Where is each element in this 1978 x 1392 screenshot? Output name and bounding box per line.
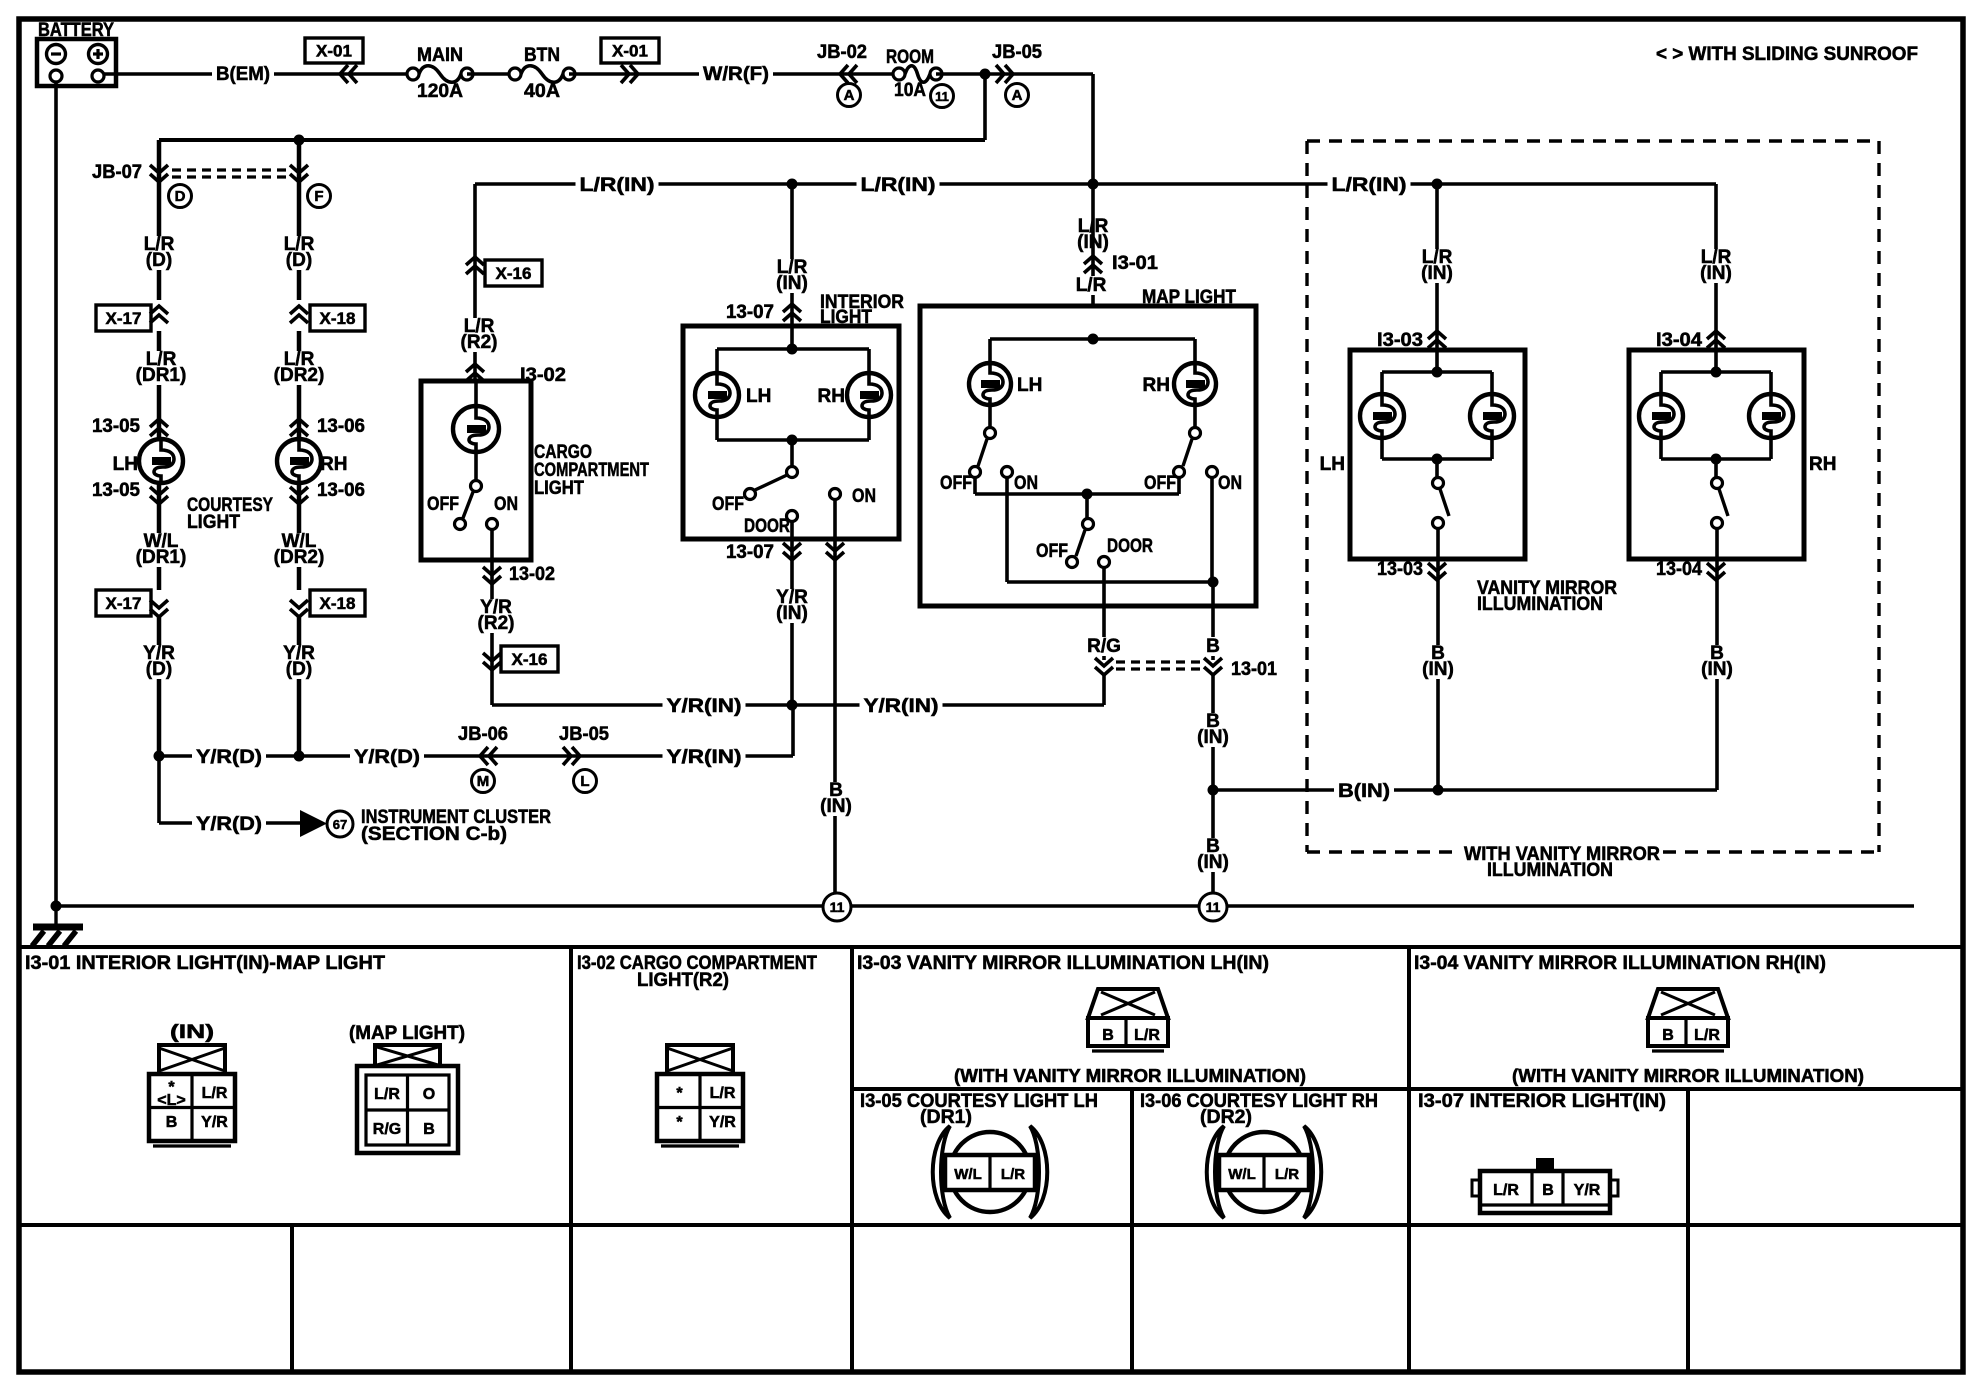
- svg-text:ON: ON: [494, 494, 518, 515]
- svg-text:I3-03 VANITY MIRROR ILLUMINATI: I3-03 VANITY MIRROR ILLUMINATION LH(IN): [857, 953, 1269, 974]
- svg-text:(R2): (R2): [461, 332, 498, 353]
- svg-text:11: 11: [1206, 899, 1221, 915]
- wire L/R(IN) bus: [475, 182, 1716, 186]
- label Y/R(IN) 3: [663, 748, 746, 767]
- table grid: [19, 947, 1963, 1372]
- svg-text:*: *: [676, 1085, 683, 1102]
- label L/R(IN) bus 2: [857, 176, 940, 195]
- svg-text:LH: LH: [746, 386, 771, 407]
- svg-text:Y/R(D): Y/R(D): [354, 747, 420, 768]
- svg-text:B: B: [1662, 1027, 1674, 1044]
- svg-text:Y/R(D): Y/R(D): [196, 814, 262, 835]
- label Y/R(D) 3: [192, 815, 266, 834]
- svg-text:11: 11: [935, 89, 949, 104]
- svg-text:JB-06: JB-06: [458, 724, 508, 745]
- node junction at x985 top: [980, 69, 991, 80]
- connector I3-01 lower arrows B: [1204, 667, 1222, 675]
- wire X-17 to lamp LH: [157, 331, 162, 440]
- svg-text:RH: RH: [818, 386, 845, 407]
- svg-text:W/R(F): W/R(F): [703, 64, 769, 85]
- connector X-17 lower: [96, 590, 151, 616]
- svg-text:10A: 10A: [894, 80, 926, 101]
- svg-text:*: *: [676, 1114, 683, 1131]
- node bus junction vanity LH: [1432, 179, 1443, 190]
- svg-text:B: B: [166, 1114, 178, 1131]
- svg-text:LIGHT: LIGHT: [534, 478, 584, 499]
- label Y/R(IN) 2: [860, 697, 943, 716]
- node circled 11 right: [1198, 892, 1228, 920]
- svg-text:X-17: X-17: [106, 594, 142, 613]
- switch interior: [790, 440, 794, 467]
- svg-text:L/R: L/R: [1134, 1027, 1160, 1044]
- wire Y/R riser to junction: [791, 705, 795, 756]
- lamp cargo: [474, 381, 478, 407]
- svg-text:LH: LH: [1320, 454, 1345, 475]
- wire X-18 to lamp RH: [297, 331, 302, 440]
- node map off bus: [1082, 489, 1093, 500]
- vanity mirror illumination LH box: [1350, 350, 1525, 559]
- svg-text:JB-02: JB-02: [817, 42, 867, 63]
- wire battery positive B(EM) feed: [104, 72, 413, 76]
- wire battery negative down: [54, 82, 58, 906]
- switch map LH: [988, 405, 992, 428]
- wire courtesy RH drop upper: [297, 140, 302, 300]
- svg-text:RH: RH: [320, 454, 347, 475]
- svg-text:DOOR: DOOR: [1107, 536, 1153, 557]
- label B map: [1204, 637, 1223, 656]
- interior lamp parallel circuit: [790, 326, 794, 349]
- cargo compartment light box: [421, 381, 531, 560]
- switch map RH: [1193, 405, 1197, 428]
- connector I3-07 lower arrows: [783, 552, 801, 560]
- svg-text:(IN): (IN): [776, 273, 808, 294]
- svg-text:A: A: [844, 87, 855, 104]
- label Y/R(D) 2: [350, 748, 424, 767]
- svg-text:<L>: <L>: [157, 1092, 185, 1109]
- svg-text:(DR2): (DR2): [274, 365, 325, 386]
- wire B to I3-01: [1211, 606, 1215, 660]
- label L/R (D) left: [141, 236, 178, 270]
- svg-text:(IN): (IN): [776, 603, 808, 624]
- svg-text:M: M: [477, 773, 490, 790]
- svg-text:(IN): (IN): [1197, 727, 1229, 748]
- svg-text:D: D: [175, 188, 186, 205]
- wire BTN fuse to X-01 right: [569, 72, 899, 76]
- wire Y/R(D) horizontal: [159, 754, 793, 758]
- svg-text:X-01: X-01: [612, 42, 648, 61]
- connector I3-02 upper arrows: [466, 364, 484, 372]
- connector arrows X-01 right: [630, 65, 638, 83]
- label B (IN) interior: [812, 782, 860, 816]
- svg-text:(IN): (IN): [1700, 263, 1732, 284]
- connector X-16 upper: [466, 257, 484, 265]
- svg-text:Y/R(IN): Y/R(IN): [667, 696, 742, 717]
- svg-text:L: L: [580, 773, 589, 790]
- interior light box: [683, 326, 899, 539]
- wire vanity RH to B(IN): [1715, 559, 1719, 790]
- wire cargo ON output: [490, 530, 494, 560]
- svg-text:13-07: 13-07: [726, 302, 774, 323]
- label L/R(IN) bus 3: [1328, 176, 1411, 195]
- label Y/R (D) right: [281, 645, 318, 679]
- svg-text:Y/R(IN): Y/R(IN): [864, 696, 939, 717]
- svg-text:B(IN): B(IN): [1338, 781, 1390, 802]
- svg-text:L/R: L/R: [1076, 275, 1107, 296]
- svg-text:(WITH VANITY MIRROR ILLUMINATI: (WITH VANITY MIRROR ILLUMINATION): [1512, 1066, 1864, 1086]
- svg-text:(R2): (R2): [478, 613, 515, 634]
- connector I3-07 upper arrows: [783, 304, 801, 312]
- svg-text:13-04: 13-04: [1656, 559, 1702, 580]
- wire B(IN) map down: [1211, 675, 1215, 892]
- dashed option box WITH VANITY MIRROR ILLUMINATION: [1307, 141, 1879, 852]
- svg-text:L/R: L/R: [1493, 1182, 1519, 1199]
- label L/R (D) right: [281, 236, 318, 270]
- node Y/R(D) junction left: [154, 751, 165, 762]
- label L/R (R2): [455, 318, 503, 352]
- svg-text:LH: LH: [113, 454, 138, 475]
- wire lamp LH to X-17 lower: [157, 483, 162, 590]
- node Y/R(D) junction right: [294, 751, 305, 762]
- node junction F branch: [294, 135, 305, 146]
- connector arrows X-01 left: [340, 65, 348, 83]
- wire Y/R(IN) horizontal: [492, 703, 1104, 707]
- svg-text:13-05: 13-05: [92, 480, 140, 501]
- label B (IN) vanity RH: [1693, 645, 1741, 679]
- label B(EM): [212, 65, 274, 84]
- svg-text:OFF: OFF: [1144, 473, 1176, 494]
- label Y/R (IN) door: [768, 589, 816, 623]
- svg-text:ON: ON: [1014, 473, 1038, 494]
- svg-text:Y/R: Y/R: [709, 1114, 736, 1131]
- svg-text:OFF: OFF: [427, 494, 459, 515]
- wire feed corner down to L/R(IN) bus: [1091, 74, 1095, 184]
- connector drawing I3-04: [1648, 989, 1728, 1051]
- svg-text:A: A: [1012, 87, 1023, 104]
- wire JB-07 feed drop from x985: [983, 74, 987, 140]
- svg-text:R/G: R/G: [373, 1121, 401, 1138]
- lamp interior LH: [695, 373, 739, 417]
- wire courtesy LH drop upper: [157, 140, 162, 300]
- node Y/R junction: [787, 700, 798, 711]
- svg-text:RH: RH: [1143, 375, 1170, 396]
- svg-text:O: O: [423, 1086, 435, 1103]
- connector X-01 left: [305, 38, 363, 63]
- lamp map RH: [1174, 363, 1216, 405]
- node bus junction map light: [1088, 179, 1099, 190]
- svg-text:13-05: 13-05: [92, 416, 140, 437]
- svg-text:MAIN: MAIN: [417, 45, 463, 66]
- svg-text:L/R: L/R: [202, 1085, 228, 1102]
- svg-text:ILLUMINATION: ILLUMINATION: [1487, 860, 1613, 881]
- svg-text:L/R: L/R: [710, 1085, 736, 1102]
- svg-text:ON: ON: [852, 486, 876, 507]
- lamp map LH: [969, 363, 1011, 405]
- wire interior ON output: [833, 499, 837, 539]
- svg-text:RH: RH: [1809, 454, 1836, 475]
- connector I3-05 upper arrows: [150, 419, 168, 427]
- svg-text:(D): (D): [146, 250, 172, 271]
- svg-text:LIGHT(R2): LIGHT(R2): [637, 970, 729, 991]
- label Y/R (D) left: [141, 645, 178, 679]
- svg-text:BTN: BTN: [524, 45, 560, 66]
- node B(IN) junction: [1208, 785, 1219, 796]
- label B (IN) upper: [1189, 713, 1237, 747]
- lamp courtesy LH: [139, 439, 183, 483]
- wire vanity LH drop: [1435, 184, 1439, 350]
- connector I3-06 upper arrows: [290, 419, 308, 427]
- svg-text:13-07: 13-07: [726, 542, 774, 563]
- svg-text:W/L: W/L: [1228, 1166, 1256, 1183]
- svg-text:X-16: X-16: [496, 264, 532, 283]
- label Y/R (R2): [472, 599, 520, 633]
- svg-text:X-16: X-16: [512, 650, 548, 669]
- map lamp circuit top: [990, 337, 1195, 341]
- svg-text:Y/R(D): Y/R(D): [196, 747, 262, 768]
- node circled F: [308, 185, 331, 208]
- svg-text:B: B: [1206, 636, 1220, 657]
- lamp interior RH: [847, 373, 891, 417]
- connector X-16 lower: [483, 662, 501, 670]
- label R/G: [1084, 637, 1124, 656]
- wire map OFF bus: [973, 478, 977, 494]
- wire DOOR to Y/R junction: [790, 539, 794, 705]
- svg-text:(IN): (IN): [1701, 659, 1733, 680]
- connector X-18 upper: [310, 305, 365, 331]
- wire ground bus: [56, 904, 1914, 908]
- svg-text:(WITH VANITY MIRROR ILLUMINATI: (WITH VANITY MIRROR ILLUMINATION): [954, 1066, 1306, 1086]
- svg-text:(IN): (IN): [170, 1022, 214, 1043]
- svg-text:X-01: X-01: [316, 42, 352, 61]
- svg-text:R/G: R/G: [1087, 636, 1121, 657]
- svg-text:JB-07: JB-07: [92, 162, 142, 183]
- wire MAIN fuse to BTN fuse: [467, 72, 515, 76]
- svg-text:OFF: OFF: [712, 494, 744, 515]
- svg-text:67: 67: [333, 817, 347, 832]
- ground symbol: [32, 906, 83, 946]
- svg-text:I3-01 INTERIOR LIGHT(IN)-MAP L: I3-01 INTERIOR LIGHT(IN)-MAP LIGHT: [25, 953, 385, 974]
- ground ref A at JB-02: [838, 84, 861, 107]
- wire interior ON to ground node 11: [833, 539, 837, 892]
- svg-text:X-18: X-18: [320, 594, 356, 613]
- connector X-17 upper: [96, 305, 151, 331]
- svg-text:Y/R: Y/R: [201, 1114, 228, 1131]
- svg-text:I3-06 COURTESY LIGHT RH: I3-06 COURTESY LIGHT RH: [1140, 1091, 1378, 1112]
- label L/R map feed: [1071, 276, 1111, 295]
- svg-text:JB-05: JB-05: [992, 42, 1042, 63]
- svg-text:11: 11: [830, 899, 845, 915]
- svg-text:13-01: 13-01: [1231, 659, 1277, 680]
- svg-text:(IN): (IN): [1197, 852, 1229, 873]
- svg-text:L/R: L/R: [1275, 1166, 1299, 1183]
- svg-text:I3-04 VANITY MIRROR ILLUMINATI: I3-04 VANITY MIRROR ILLUMINATION RH(IN): [1414, 953, 1826, 974]
- node interior top: [787, 344, 798, 355]
- wire map B output: [1211, 582, 1215, 606]
- map light box: [920, 306, 1256, 606]
- svg-text:LH: LH: [1017, 375, 1042, 396]
- label L/R (IN) map feed upper: [1069, 218, 1117, 252]
- node interior bottom: [787, 435, 798, 446]
- wire bus to map light: [1091, 184, 1095, 339]
- connector drawing I3-02: [667, 1045, 733, 1074]
- connector drawing I3-03: [1088, 989, 1168, 1051]
- svg-text:(MAP LIGHT): (MAP LIGHT): [349, 1023, 465, 1044]
- svg-text:(D): (D): [286, 659, 312, 680]
- svg-text:L/R: L/R: [1001, 1166, 1025, 1183]
- battery B1: [37, 20, 116, 86]
- label W/R(F): [699, 65, 773, 84]
- node circled 11 at ROOM fuse: [931, 85, 954, 108]
- label B (IN) lower: [1189, 838, 1237, 872]
- connector drawing I3-06: [1207, 1126, 1322, 1218]
- connector I3-01 lower arrows R/G: [1095, 667, 1113, 675]
- svg-text:JB-05: JB-05: [559, 724, 609, 745]
- connector I3-04 upper arrows: [1707, 331, 1725, 339]
- svg-text:L/R(IN): L/R(IN): [580, 175, 655, 196]
- svg-text:ILLUMINATION: ILLUMINATION: [1477, 594, 1603, 615]
- connector I3-03 upper arrows: [1428, 331, 1446, 339]
- svg-text:L/R(IN): L/R(IN): [861, 175, 936, 196]
- svg-text:(D): (D): [286, 250, 312, 271]
- svg-text:13-02: 13-02: [509, 564, 555, 585]
- wire bus corner down to X-16 upper: [473, 184, 477, 381]
- svg-text:BATTERY: BATTERY: [38, 20, 114, 41]
- svg-text:(D): (D): [146, 659, 172, 680]
- switch cargo: [474, 452, 478, 480]
- label L/R (DR2): [270, 351, 329, 385]
- label L/R (IN) vanity RH: [1692, 249, 1740, 283]
- node B(IN) vanity junction: [1433, 785, 1444, 796]
- svg-text:I3-01: I3-01: [1112, 253, 1158, 274]
- label B (IN) vanity LH: [1414, 645, 1462, 679]
- wire vanity LH to B(IN): [1436, 559, 1440, 790]
- svg-text:13-06: 13-06: [317, 480, 365, 501]
- wire lamp RH to X-18 lower: [297, 483, 302, 590]
- switch map master OFF/DOOR: [1085, 494, 1089, 518]
- label L/R(IN) bus 1: [576, 176, 659, 195]
- ground ref L: [574, 770, 597, 793]
- svg-text:(DR1): (DR1): [136, 365, 187, 386]
- label L/R (DR1): [132, 351, 191, 385]
- svg-text:L/R: L/R: [374, 1086, 400, 1103]
- wire R/G to I3-01: [1102, 606, 1106, 660]
- svg-text:< > WITH SLIDING SUNROOF: < > WITH SLIDING SUNROOF: [1656, 44, 1918, 65]
- wire bus to interior light: [790, 184, 794, 326]
- wire JB-07 horizontal feed y140: [159, 138, 985, 142]
- label L/R (IN) vanity LH: [1413, 249, 1461, 283]
- svg-text:13-06: 13-06: [317, 416, 365, 437]
- svg-text:X-18: X-18: [320, 309, 356, 328]
- svg-text:LIGHT: LIGHT: [187, 512, 240, 533]
- wire instrument cluster branch: [157, 756, 161, 823]
- connector I3-02 lower arrows: [483, 576, 501, 584]
- svg-text:L/R: L/R: [1694, 1027, 1720, 1044]
- wire map DOOR output R/G: [1102, 568, 1106, 606]
- connector I3-06 lower arrows: [290, 496, 308, 504]
- wire map ON to B: [1005, 478, 1009, 582]
- svg-text:(DR2): (DR2): [274, 547, 325, 568]
- svg-text:DOOR: DOOR: [744, 516, 790, 537]
- svg-text:OFF: OFF: [1036, 541, 1068, 562]
- lamp courtesy RH: [277, 439, 321, 483]
- wire B(IN) horizontal: [1213, 788, 1717, 792]
- svg-text:Y/R(IN): Y/R(IN): [667, 747, 742, 768]
- svg-text:(DR1): (DR1): [920, 1107, 972, 1128]
- svg-text:ON: ON: [1218, 473, 1242, 494]
- node bus junction interior light: [787, 179, 798, 190]
- wire ROOM fuse to JB-05: [936, 72, 1093, 76]
- fuse BTN 40A: [521, 66, 563, 83]
- svg-text:40A: 40A: [524, 81, 560, 102]
- svg-text:(IN): (IN): [1422, 659, 1454, 680]
- ground ref M: [472, 770, 495, 793]
- svg-text:I3-05 COURTESY LIGHT LH: I3-05 COURTESY LIGHT LH: [860, 1091, 1098, 1112]
- arrow to instrument cluster: [300, 810, 327, 837]
- connector X-18 lower: [310, 590, 365, 616]
- label Y/R(IN) 1: [663, 697, 746, 716]
- wire vanity bus corner down RH: [1714, 184, 1718, 350]
- svg-text:OFF: OFF: [940, 473, 972, 494]
- svg-text:B: B: [1542, 1182, 1554, 1199]
- connector I3-04 lower arrows: [1707, 572, 1725, 580]
- svg-text:F: F: [314, 188, 323, 205]
- svg-text:(DR1): (DR1): [136, 547, 187, 568]
- label W/L (DR2): [270, 533, 329, 567]
- node circled D: [169, 185, 192, 208]
- svg-text:W/L: W/L: [954, 1166, 982, 1183]
- connector I3-01 upper arrows: [1084, 256, 1102, 264]
- label L/R (IN) interior feed: [768, 259, 816, 293]
- fuse MAIN 120A: [419, 66, 461, 83]
- connector I3-05 lower arrows: [150, 496, 168, 504]
- svg-text:13-03: 13-03: [1377, 559, 1423, 580]
- vanity mirror illumination RH box: [1629, 350, 1804, 559]
- wire cargo to X-16 lower: [490, 560, 494, 705]
- svg-text:X-17: X-17: [106, 309, 142, 328]
- svg-text:B: B: [1102, 1027, 1114, 1044]
- ground ref A at JB-05: [1006, 84, 1029, 107]
- wire interior DOOR output: [790, 521, 794, 539]
- node circled 11 left: [822, 892, 852, 920]
- node circled 67: [327, 811, 353, 837]
- connector drawing I3-07: [1472, 1158, 1618, 1213]
- label Y/R(D) 1: [192, 748, 266, 767]
- node map B junction: [1208, 577, 1219, 588]
- wire Y/R corner up to I3-01: [1102, 675, 1106, 705]
- wire X-17 lower to Y/R junction: [157, 616, 162, 756]
- svg-text:120A: 120A: [417, 81, 463, 102]
- svg-text:B(EM): B(EM): [216, 64, 270, 85]
- wire X-18 lower down to Y/R(D) junction: [297, 616, 302, 756]
- svg-text:B: B: [423, 1121, 435, 1138]
- svg-text:Y/R: Y/R: [1574, 1182, 1601, 1199]
- node map top: [1088, 334, 1099, 345]
- svg-text:I3-07 INTERIOR LIGHT(IN): I3-07 INTERIOR LIGHT(IN): [1418, 1091, 1666, 1112]
- connector drawing I3-05: [933, 1126, 1048, 1218]
- svg-text:L/R(IN): L/R(IN): [1332, 175, 1407, 196]
- connector X-01 right: [601, 38, 659, 63]
- svg-text:(DR2): (DR2): [1200, 1107, 1252, 1128]
- node ground junction: [51, 901, 62, 912]
- connector I3-03 lower arrows: [1428, 572, 1446, 580]
- label W/L (DR1): [132, 533, 191, 567]
- svg-text:(IN): (IN): [820, 796, 852, 817]
- label B(IN): [1334, 782, 1394, 801]
- svg-text:(SECTION C-b): (SECTION C-b): [361, 824, 507, 845]
- svg-text:(IN): (IN): [1421, 263, 1453, 284]
